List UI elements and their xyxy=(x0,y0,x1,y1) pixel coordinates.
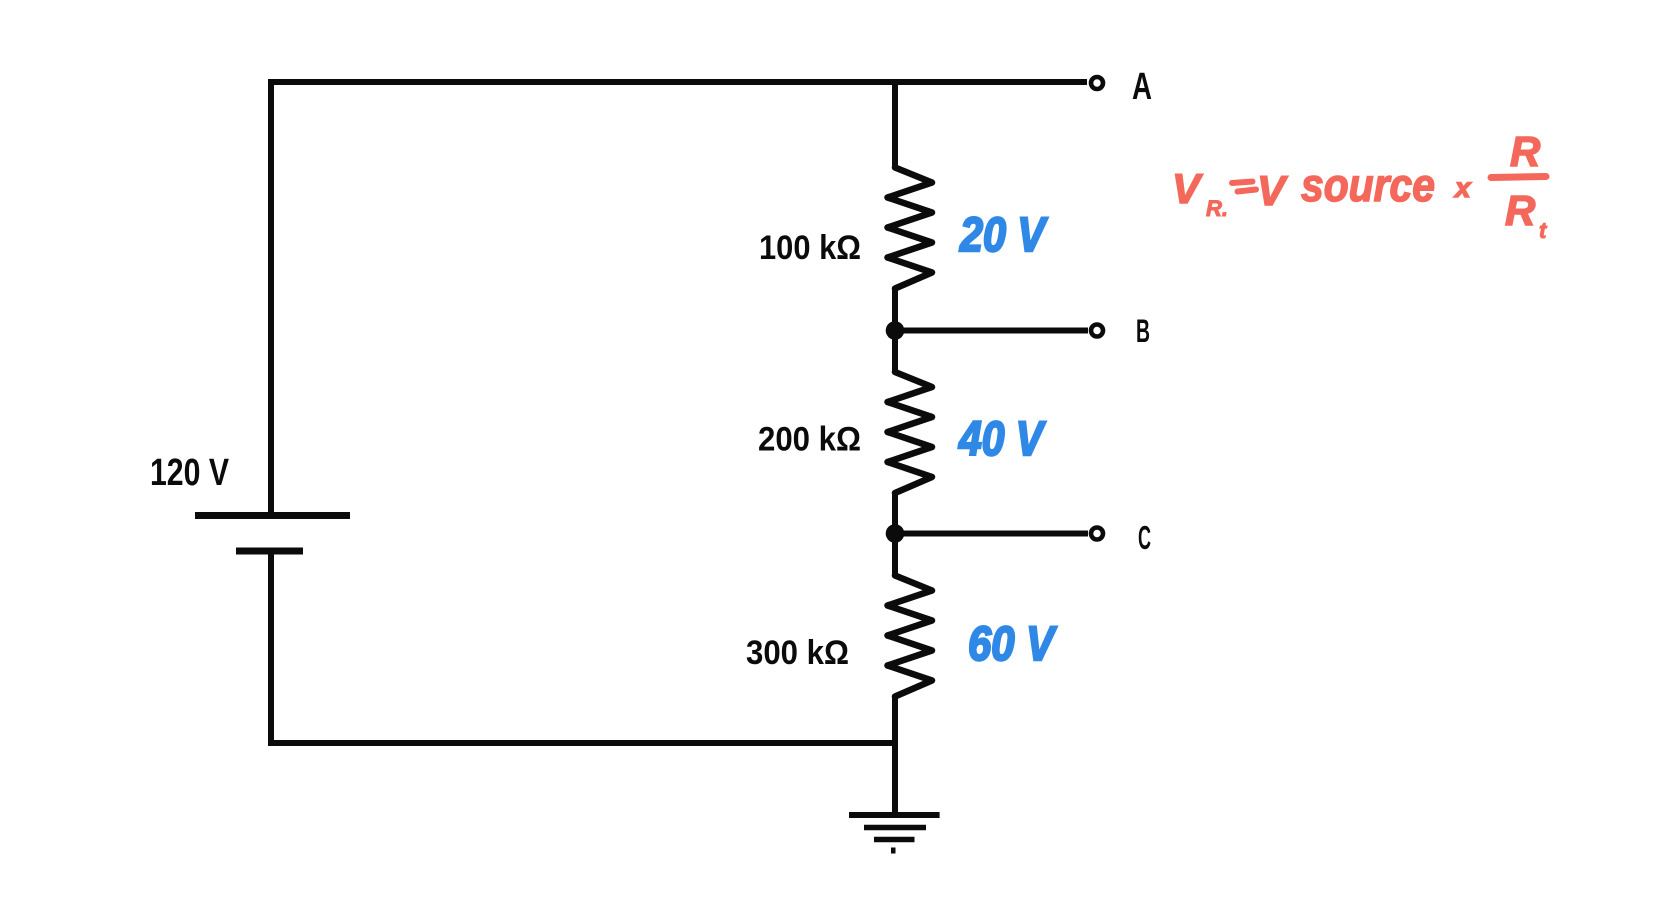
terminal B open circle xyxy=(1091,325,1103,337)
svg-text:source: source xyxy=(1301,159,1435,211)
ground bar 3 xyxy=(874,837,915,843)
wire bottom rail from battery - to resistor column xyxy=(271,555,895,744)
ground tick dot xyxy=(891,848,896,854)
svg-text:R: R xyxy=(1505,187,1536,234)
resistor R3 zigzag xyxy=(888,576,933,697)
svg-text:x: x xyxy=(1453,172,1472,203)
ground bar 2 xyxy=(864,825,926,831)
battery V1 positive plate xyxy=(195,512,350,519)
svg-text:60 V: 60 V xyxy=(968,618,1057,671)
node C junction dot xyxy=(886,524,905,543)
node B junction dot xyxy=(886,321,905,340)
ground bar 1 xyxy=(849,812,940,818)
formula equals sign xyxy=(1232,182,1256,192)
terminal C open circle xyxy=(1091,528,1103,540)
svg-text:R: R xyxy=(1510,128,1541,175)
battery V1 negative plate xyxy=(236,548,303,555)
formula fraction bar xyxy=(1491,177,1546,178)
svg-text:120 V: 120 V xyxy=(150,452,230,494)
wire top lead into R1 xyxy=(892,82,898,168)
svg-text:R.: R. xyxy=(1206,196,1228,221)
svg-text:200 kΩ: 200 kΩ xyxy=(758,421,861,459)
wire lead R2 to R3 through node C xyxy=(892,493,898,576)
resistor R2 zigzag xyxy=(888,372,933,493)
svg-text:40 V: 40 V xyxy=(958,413,1046,466)
svg-text:20 V: 20 V xyxy=(959,209,1048,262)
svg-text:t: t xyxy=(1539,218,1548,243)
svg-text:C: C xyxy=(1138,519,1151,556)
svg-text:100 kΩ: 100 kΩ xyxy=(759,229,861,267)
resistor R1 zigzag xyxy=(888,168,933,289)
svg-text:A: A xyxy=(1132,66,1152,108)
wire top rail from battery + to node A xyxy=(271,82,1087,512)
terminal A open circle xyxy=(1091,77,1103,89)
svg-text:V: V xyxy=(1172,165,1203,212)
svg-text:300 kΩ: 300 kΩ xyxy=(746,634,849,672)
svg-text:V: V xyxy=(1257,167,1288,214)
wire node B to terminal B xyxy=(895,328,1088,334)
wire lead R1 to R2 through node B xyxy=(892,289,898,373)
svg-text:B: B xyxy=(1136,313,1150,349)
wire R3 bottom lead to ground xyxy=(892,697,898,814)
wire node C to terminal C xyxy=(895,531,1088,537)
